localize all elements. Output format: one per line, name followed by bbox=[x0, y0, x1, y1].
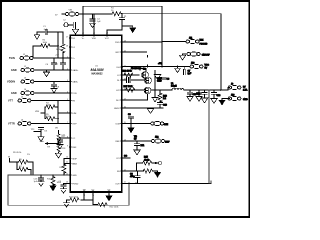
wire N2 drain riser bbox=[140, 68, 146, 71]
svg-text:R22 100k: R22 100k bbox=[110, 207, 120, 209]
capacitor C1 bbox=[45, 29, 47, 34]
wire long top y13.5 to right drop bbox=[121, 14, 221, 90]
pin labels left inside bbox=[72, 38, 79, 185]
wire mid tap y113 bbox=[58, 112, 70, 114]
wire fet source vertical bbox=[154, 71, 156, 98]
resistor R4 bbox=[46, 105, 55, 109]
wire LX2 y100 bbox=[122, 95, 148, 100]
pin ticks bottom bbox=[84, 191, 109, 193]
svg-text:REF: REF bbox=[165, 141, 170, 143]
svg-text:28: 28 bbox=[66, 45, 68, 47]
wire DH2 y90 bbox=[122, 89, 157, 91]
svg-text:12: 12 bbox=[124, 169, 126, 171]
wire vertical to IC pin 25 bbox=[93, 14, 95, 35]
svg-text:16: 16 bbox=[108, 195, 110, 197]
capacitor C7 bbox=[60, 63, 65, 65]
ground open V below LX2 bbox=[147, 109, 153, 114]
svg-text:5: 5 bbox=[67, 99, 68, 101]
wire DH y42 bbox=[122, 41, 162, 43]
svg-text:+5V: +5V bbox=[55, 55, 59, 57]
node dot VCC bbox=[161, 66, 163, 68]
svg-text:VFB: VFB bbox=[35, 111, 40, 113]
resistor R6 bbox=[19, 160, 28, 164]
connector row1 bbox=[20, 56, 33, 60]
svg-text:17: 17 bbox=[124, 98, 126, 100]
node dot C bbox=[161, 13, 163, 15]
resistor R20 bbox=[137, 170, 156, 172]
svg-text:15: 15 bbox=[124, 122, 126, 124]
wire stub Q1 bbox=[10, 159, 19, 163]
output cap C19 bbox=[213, 90, 215, 98]
output cap C10 bbox=[189, 90, 191, 96]
svg-text:OVP: OVP bbox=[72, 124, 77, 126]
resistor R2 leads bbox=[33, 45, 58, 47]
divider chain stub bbox=[58, 131, 60, 154]
ground arrow C9b bbox=[38, 137, 44, 142]
ground C11 bbox=[59, 142, 61, 144]
svg-text:22: 22 bbox=[124, 50, 126, 52]
connector row3 bbox=[21, 80, 34, 84]
svg-text:24: 24 bbox=[106, 33, 108, 35]
wire PGOOD row bbox=[162, 41, 186, 43]
ground J10 bbox=[219, 100, 225, 105]
svg-text:7: 7 bbox=[67, 122, 68, 124]
resistor R11 bbox=[124, 73, 133, 77]
wire R10 drop bbox=[147, 56, 149, 68]
resistor R22 bbox=[98, 203, 107, 207]
svg-text:R26 100k: R26 100k bbox=[123, 71, 133, 73]
svg-text:6.8µH: 6.8µH bbox=[171, 86, 177, 88]
resistor R15 bbox=[143, 161, 152, 165]
resistor R3 bbox=[62, 32, 64, 59]
resistor R12 bbox=[126, 88, 135, 92]
wire input row y14 bbox=[62, 13, 94, 15]
resistor R7 bbox=[19, 167, 28, 171]
resistor R2 bbox=[41, 44, 50, 48]
capacitor C14 bbox=[126, 77, 128, 82]
capacitor C6 bbox=[54, 58, 63, 70]
connector VOUT bbox=[228, 86, 241, 90]
svg-text:11: 11 bbox=[66, 162, 68, 164]
svg-text:REF: REF bbox=[72, 147, 77, 149]
svg-text:25: 25 bbox=[93, 33, 95, 35]
svg-text:ILIM: ILIM bbox=[116, 124, 120, 126]
wire row y81.5 bbox=[34, 81, 70, 83]
wire CC pin y138 bbox=[60, 138, 70, 140]
wire y32 bbox=[37, 31, 63, 33]
svg-text:12: 12 bbox=[66, 173, 68, 175]
svg-text:TM: TM bbox=[82, 189, 85, 191]
svg-text:CC: CC bbox=[72, 138, 76, 140]
svg-text:PGD: PGD bbox=[115, 42, 120, 44]
output cap C18 bbox=[204, 90, 206, 98]
capacitor D6 bbox=[134, 144, 139, 146]
svg-text:GND2: GND2 bbox=[114, 108, 121, 110]
svg-text:1%: 1% bbox=[27, 154, 30, 156]
capacitor C11 bbox=[57, 140, 62, 142]
svg-text:18: 18 bbox=[124, 88, 126, 90]
svg-text:MAXIM: MAXIM bbox=[91, 67, 105, 72]
wire right vertical x162 bbox=[161, 6, 163, 66]
svg-text:VD: VD bbox=[134, 136, 137, 138]
svg-text:20: 20 bbox=[124, 73, 126, 75]
svg-text:GND: GND bbox=[243, 99, 248, 101]
ground arrow R16 bbox=[50, 186, 56, 191]
wire x211 elbow bbox=[209, 90, 211, 183]
resistor R18 bbox=[57, 145, 60, 152]
wire long vertical x209 bbox=[208, 90, 210, 183]
pin numbers left outside bbox=[66, 36, 68, 183]
ground arrow ILIM bbox=[128, 128, 134, 133]
wire box left x8 bbox=[7, 175, 9, 205]
input arrow symbol bbox=[36, 32, 38, 35]
svg-text:MAX8632: MAX8632 bbox=[91, 72, 103, 75]
capacitor C7b bbox=[183, 67, 185, 70]
wire BST y52 bbox=[122, 51, 147, 53]
svg-text:VCC: VCC bbox=[105, 38, 110, 40]
wire bottom pin1 drop bbox=[67, 192, 94, 203]
resistor R1 bbox=[112, 12, 121, 16]
svg-text:16: 16 bbox=[124, 106, 126, 108]
svg-text:VAA: VAA bbox=[39, 140, 44, 143]
svg-text:.1µF: .1µF bbox=[43, 29, 48, 31]
svg-text:10: 10 bbox=[66, 157, 68, 159]
svg-text:15: 15 bbox=[92, 195, 94, 197]
wire row y58 bbox=[33, 57, 70, 59]
capacitor C23 bbox=[128, 116, 133, 118]
test point circle bbox=[159, 162, 162, 165]
output cap C17 bbox=[198, 90, 200, 96]
pin ticks left bbox=[69, 38, 71, 183]
pin numbers bottom bbox=[83, 195, 110, 197]
wire output bus bbox=[184, 89, 227, 91]
svg-text:OAIN+: OAIN+ bbox=[72, 69, 79, 72]
svg-text:R9 49.9k: R9 49.9k bbox=[13, 152, 22, 154]
mosfet N2 bbox=[142, 72, 149, 79]
wire R7 link bbox=[17, 162, 31, 169]
wire to IC top pin 24 bbox=[107, 30, 122, 35]
ground R18 bbox=[55, 153, 61, 158]
svg-text:OUT: OUT bbox=[115, 183, 120, 185]
capacitor C2 bbox=[68, 24, 73, 26]
svg-text:8: 8 bbox=[67, 136, 68, 138]
svg-text:VDD: VDD bbox=[92, 38, 97, 40]
pin labels bottom inside bbox=[82, 189, 111, 191]
snubber R13 bbox=[159, 90, 161, 108]
ground C8 bbox=[53, 86, 55, 88]
svg-text:CCI: CCI bbox=[116, 158, 120, 160]
wire box right x129 bbox=[128, 183, 130, 205]
resistor R8 bbox=[62, 164, 66, 173]
svg-text:REF: REF bbox=[116, 141, 121, 143]
border frame bbox=[1, 1, 249, 217]
svg-text:GND: GND bbox=[72, 175, 77, 177]
wire x33 drop bbox=[32, 46, 34, 58]
wire ON lead bbox=[183, 53, 188, 56]
capacitor C8 polarized bbox=[53, 82, 55, 85]
svg-text:+5V: +5V bbox=[158, 63, 162, 65]
zener D2 drop bbox=[121, 13, 123, 18]
svg-text:GND: GND bbox=[157, 81, 162, 83]
resistor R17 bbox=[57, 134, 60, 141]
wire bottom pin2 drop bbox=[93, 192, 97, 205]
wire top y6 bbox=[83, 5, 162, 7]
pin ticks top bbox=[83, 34, 107, 36]
wire box top y175 bbox=[8, 174, 70, 176]
svg-text:DH: DH bbox=[117, 67, 121, 69]
svg-text:ON/OFF: ON/OFF bbox=[202, 55, 211, 57]
pin labels right inside bbox=[114, 42, 121, 185]
svg-text:ILIM: ILIM bbox=[164, 124, 168, 126]
connector ILIM bbox=[151, 122, 164, 126]
wire DL y80 bbox=[122, 79, 144, 81]
ground C2 bbox=[75, 27, 77, 29]
wire VOUT lead bbox=[227, 88, 230, 91]
wire ILIM y123.5 bbox=[122, 118, 152, 127]
node dot B bbox=[93, 13, 95, 15]
svg-text:GND: GND bbox=[11, 69, 17, 72]
wire DL y67 bbox=[122, 66, 191, 68]
svg-text:TON: TON bbox=[72, 93, 77, 95]
wire TP3 bbox=[34, 129, 41, 136]
svg-text:4: 4 bbox=[67, 91, 68, 93]
svg-text:PGND: PGND bbox=[72, 183, 79, 185]
wire tap arrow bbox=[48, 143, 59, 145]
ground C16b bbox=[38, 182, 44, 186]
node dot A bbox=[82, 13, 84, 15]
connector J8 input bbox=[66, 12, 79, 16]
pin ticks right bbox=[121, 42, 123, 183]
input circle symbol bbox=[64, 23, 68, 27]
svg-text:PGOOD: PGOOD bbox=[200, 43, 208, 45]
svg-text:21: 21 bbox=[124, 65, 126, 67]
connector row4 bbox=[21, 91, 34, 95]
connector PGOOD bbox=[186, 40, 199, 44]
svg-text:VTT: VTT bbox=[8, 100, 13, 103]
capacitor C4 bbox=[92, 14, 94, 19]
wire x58 drop bbox=[32, 32, 59, 59]
REF stub wires bbox=[63, 158, 70, 176]
connector row2 bbox=[21, 68, 34, 72]
wire bottom pin3 drop bbox=[108, 192, 110, 196]
svg-text:23: 23 bbox=[124, 40, 126, 42]
IC U1 box bbox=[70, 35, 122, 192]
svg-text:13: 13 bbox=[124, 156, 126, 158]
ground arrow R20 bbox=[155, 171, 158, 172]
mosfet N3 bbox=[145, 77, 152, 84]
ground R21 bbox=[63, 203, 69, 207]
wire row y100.5 bbox=[31, 100, 70, 102]
ground arrow D2 bbox=[132, 26, 134, 27]
connector ON/OFF bbox=[187, 52, 200, 56]
ground ON/OFF bbox=[179, 55, 185, 60]
test point cluster wire bbox=[122, 163, 154, 172]
svg-text:OAIN-: OAIN- bbox=[72, 81, 78, 84]
node dot E bbox=[52, 174, 53, 175]
wire FB stub y158 bbox=[122, 157, 130, 159]
pin labels top inside bbox=[82, 38, 110, 40]
svg-text:14: 14 bbox=[83, 195, 85, 197]
svg-text:VTTR: VTTR bbox=[8, 123, 15, 126]
svg-text:6: 6 bbox=[67, 111, 68, 113]
svg-text:1.5A: 1.5A bbox=[243, 88, 248, 91]
svg-text:14: 14 bbox=[124, 139, 126, 141]
wire SW node bbox=[157, 89, 172, 91]
svg-text:GND: GND bbox=[11, 92, 17, 95]
svg-text:5VIN: 5VIN bbox=[9, 57, 15, 60]
svg-text:FDS6982S: FDS6982S bbox=[131, 68, 142, 70]
ground bar fet source bbox=[152, 98, 158, 102]
wire R6 right bbox=[28, 162, 33, 175]
resistor R16 bbox=[52, 174, 54, 177]
resistor R21 bbox=[70, 198, 79, 202]
svg-text:11: 11 bbox=[124, 182, 126, 184]
arrowhead tap bbox=[45, 142, 49, 145]
svg-text:3: 3 bbox=[67, 80, 68, 82]
svg-text:13: 13 bbox=[66, 182, 68, 184]
pin numbers right outside bbox=[124, 40, 126, 183]
connector GND OUT bbox=[228, 97, 241, 101]
svg-text:VIN: VIN bbox=[69, 10, 73, 12]
svg-text:ILIM: ILIM bbox=[72, 113, 76, 115]
divider network: vertical x58 bbox=[41, 101, 70, 124]
ground C4 bbox=[89, 23, 95, 27]
IC U1 label bbox=[91, 65, 105, 75]
svg-text:BIAS: BIAS bbox=[72, 162, 77, 165]
svg-text:1: 1 bbox=[67, 56, 68, 58]
capacitor C13 bbox=[61, 185, 66, 187]
wire PGND y108 bbox=[122, 107, 163, 109]
node dot N4 bbox=[141, 89, 143, 91]
svg-text:27: 27 bbox=[66, 36, 68, 38]
svg-text:VDDIN: VDDIN bbox=[7, 81, 15, 84]
svg-text:19: 19 bbox=[124, 78, 126, 80]
svg-text:2: 2 bbox=[67, 68, 68, 70]
connector VCC bbox=[190, 65, 203, 69]
wire pin y183 left bbox=[64, 183, 71, 185]
capacitor C9b bbox=[38, 127, 43, 129]
wire LX y75 bbox=[122, 68, 163, 108]
svg-text:R21 100k: R21 100k bbox=[69, 196, 79, 198]
connector REF bbox=[152, 139, 165, 143]
connector row6 bbox=[18, 122, 31, 126]
capacitor C6b bbox=[161, 77, 166, 79]
capacitor C24 bbox=[137, 171, 139, 183]
test point arrow bbox=[154, 162, 158, 164]
ground row2 bbox=[46, 70, 48, 72]
wire row y123.5 bbox=[31, 123, 70, 125]
ground arrow pin3 bbox=[106, 196, 112, 201]
ground open V fet bbox=[154, 75, 160, 80]
svg-text:VCC: VCC bbox=[205, 65, 210, 67]
svg-text:26: 26 bbox=[82, 33, 84, 35]
capacitor C16 snubber bbox=[157, 103, 162, 105]
ground VCC bar bbox=[177, 66, 179, 68]
pin numbers top bbox=[82, 33, 108, 35]
wire FB return y183 bbox=[122, 183, 211, 185]
resistor R5 bbox=[46, 117, 55, 121]
wire GND lead bbox=[222, 99, 230, 100]
ground C13 bbox=[63, 187, 65, 189]
capacitor C16b bbox=[40, 174, 42, 178]
inductor L1 bbox=[172, 88, 184, 90]
wire row y93 bbox=[34, 92, 70, 94]
svg-text:9: 9 bbox=[67, 145, 68, 147]
connector row5 bbox=[18, 99, 31, 103]
wire row y70 bbox=[34, 57, 70, 71]
wire REF y141 bbox=[122, 140, 153, 150]
wire box bottom y205 bbox=[8, 204, 129, 206]
capacitor C15 bbox=[129, 77, 131, 82]
wire from top node down to IC pin 26 bbox=[82, 6, 84, 35]
ground D6 bbox=[134, 150, 140, 155]
mosfet N4 bbox=[144, 87, 151, 94]
svg-text:SKIP: SKIP bbox=[72, 158, 77, 160]
wire y14 to resistor R1 bbox=[94, 13, 112, 15]
